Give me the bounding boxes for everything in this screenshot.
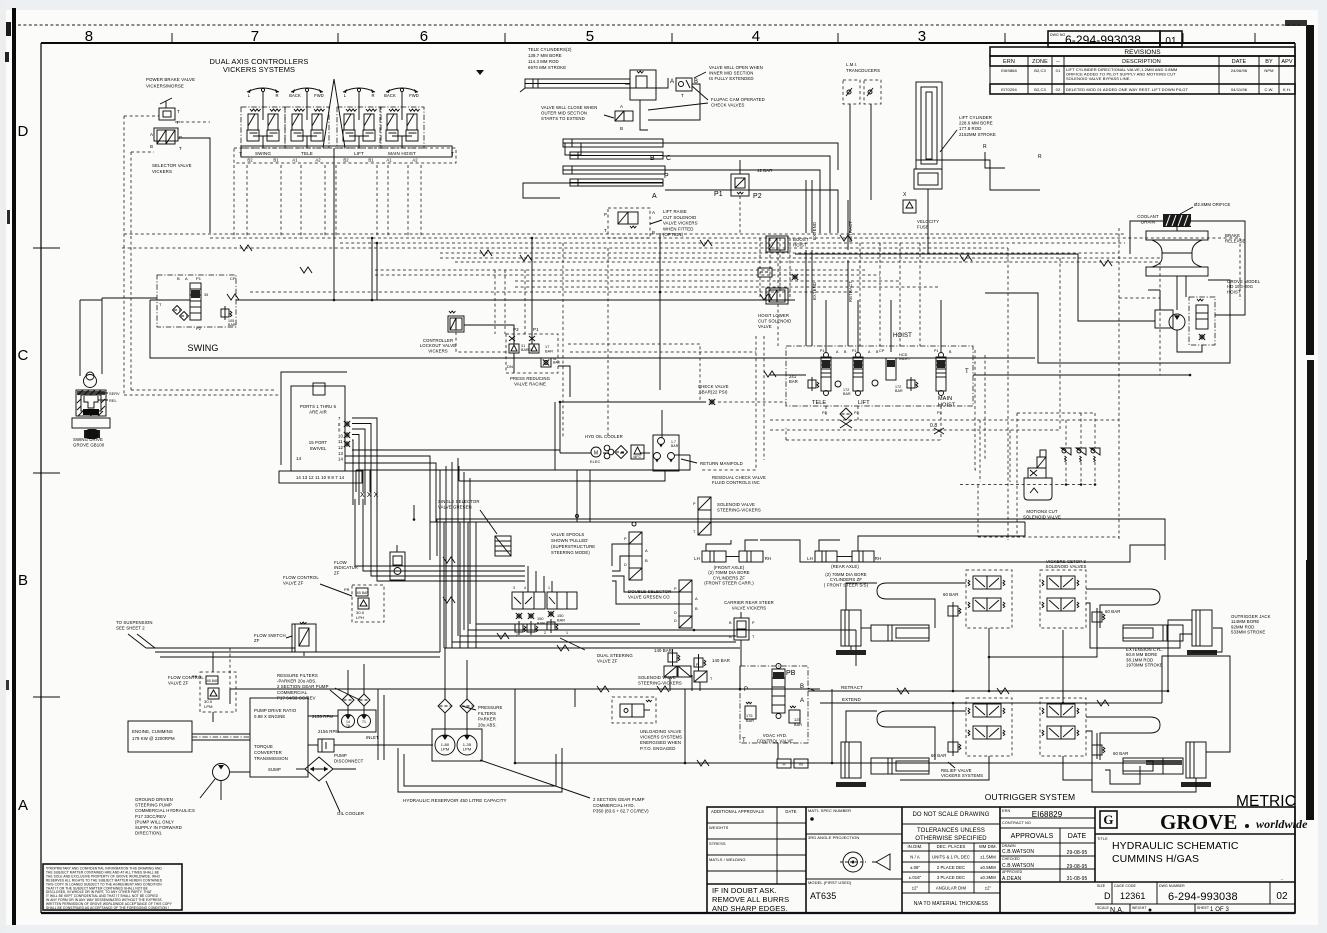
svg-text:.5BAR(22 PSI): .5BAR(22 PSI) (698, 389, 728, 394)
svg-text:SWING: SWING (255, 151, 271, 156)
svg-text:SOLENOID VALVE: SOLENOID VALVE (717, 502, 755, 507)
svg-text:B: B (177, 276, 180, 281)
svg-text:C.B.WATSON: C.B.WATSON (1002, 849, 1034, 855)
svg-text:150: 150 (557, 614, 564, 618)
svg-text:LH: LH (807, 556, 813, 561)
svg-text:P1: P1 (934, 349, 939, 353)
svg-text:MATLS / WELDING: MATLS / WELDING (709, 857, 746, 862)
svg-text:STRESS: STRESS (709, 841, 726, 846)
svg-text:PUMP DRIVE RATIO: PUMP DRIVE RATIO (254, 708, 297, 713)
svg-text:D: D (624, 563, 627, 567)
svg-text:DISCONNECT: DISCONNECT (334, 758, 364, 763)
svg-text:VALVE GRESEN CO: VALVE GRESEN CO (628, 595, 670, 600)
suspension feed lines (155, 651, 440, 653)
svg-text:P: P (752, 621, 755, 625)
svg-text:GROUND DRIVEN: GROUND DRIVEN (135, 797, 173, 802)
svg-text:3RD ANGLE PROJECTION: 3RD ANGLE PROJECTION (808, 835, 859, 840)
double selector valve 2 (679, 580, 692, 628)
svg-text:P1: P1 (196, 276, 202, 281)
svg-text:BAR: BAR (895, 389, 903, 393)
svg-text:AND SHARP EDGES.: AND SHARP EDGES. (712, 904, 788, 913)
svg-text:±0.3MM: ±0.3MM (980, 875, 996, 880)
svg-text:6970 MM STROKE: 6970 MM STROKE (528, 65, 566, 70)
svg-text:SUPPLY IN FORWARD: SUPPLY IN FORWARD (135, 825, 182, 830)
svg-text:VALVE ZF: VALVE ZF (597, 658, 618, 663)
svg-text:FLOW CONTROL: FLOW CONTROL (283, 575, 319, 580)
svg-text:04/11/96: 04/11/96 (1231, 87, 1248, 92)
lift cylinder (916, 82, 942, 169)
dual steering relief/checks (517, 614, 521, 618)
pilot line bus band (233, 165, 235, 236)
svg-text:14: 14 (296, 456, 302, 461)
svg-text:2 SECTION GEAR PUMP: 2 SECTION GEAR PUMP (593, 797, 645, 802)
svg-text:2156 RPM: 2156 RPM (318, 729, 339, 734)
dwg number box top (1048, 31, 1160, 47)
bank top risers (825, 300, 827, 352)
tele cylinder upper (525, 79, 630, 88)
revisions table (990, 47, 1295, 56)
title block (707, 807, 1295, 913)
dual axis controller TELE (291, 88, 323, 92)
svg-text:13: 13 (338, 451, 343, 456)
svg-text:APPROVALS: APPROVALS (1011, 833, 1054, 840)
svg-text:VALVE RACINE: VALVE RACINE (514, 381, 546, 386)
svg-text:DRAWN: DRAWN (1002, 844, 1016, 848)
svg-text:BAR: BAR (843, 392, 851, 396)
steering left risers (443, 522, 445, 648)
engine cummins (128, 721, 192, 752)
svg-text:PR: PR (344, 588, 350, 592)
svg-text:±.016": ±.016" (909, 875, 922, 880)
svg-text:COOLANT: COOLANT (1137, 214, 1159, 219)
main control valve bank (786, 346, 973, 406)
svg-text:35: 35 (204, 293, 208, 297)
svg-text:VALVE GRESEN: VALVE GRESEN (438, 504, 472, 509)
svg-text:±0.5MM: ±0.5MM (980, 865, 996, 870)
double selector valve 1 (629, 532, 642, 580)
svg-text:X0: X0 (799, 763, 803, 767)
svg-text:TELE CYLINDERS(2): TELE CYLINDERS(2) (528, 47, 572, 52)
svg-text:STEERING MODE): STEERING MODE) (551, 550, 590, 555)
svg-text:MM DIM.: MM DIM. (979, 844, 997, 849)
svg-text:DO NOT SCALE DRAWING: DO NOT SCALE DRAWING (912, 812, 989, 818)
svg-text:REMOVE ALL BURRS: REMOVE ALL BURRS (712, 895, 789, 904)
svg-text:INLET: INLET (366, 735, 379, 740)
svg-text:COMMERCIAL HYD.: COMMERCIAL HYD. (593, 803, 635, 808)
svg-text:LPH: LPH (356, 615, 364, 620)
svg-text:B1: B1 (273, 158, 279, 163)
svg-text:SIZE: SIZE (1097, 884, 1106, 888)
svg-text:ADDITIONAL APPROVALS: ADDITIONAL APPROVALS (711, 809, 764, 814)
svg-text:0.8: 0.8 (930, 423, 937, 429)
svg-text:STEERING PUMP: STEERING PUMP (135, 803, 172, 808)
svg-text:P: P (693, 502, 696, 506)
svg-text:BAR: BAR (789, 379, 798, 384)
svg-text:RESSURE FILTERS: RESSURE FILTERS (277, 673, 318, 678)
svg-text:DUAL STEERING: DUAL STEERING (597, 653, 633, 658)
swivel check valves (345, 422, 349, 426)
svg-text:11: 11 (338, 439, 343, 444)
xxx drops (355, 470, 357, 486)
svg-text:14: 14 (338, 457, 343, 462)
outrigger piping (846, 583, 877, 610)
svg-text:A: A (695, 596, 698, 601)
svg-text:SHEET: SHEET (1197, 906, 1210, 910)
svg-text:6: 6 (420, 28, 428, 45)
svg-text:A2: A2 (315, 158, 321, 163)
svg-text:TO SUSPENSION: TO SUSPENSION (116, 620, 153, 625)
svg-text:BAR: BAR (746, 719, 754, 723)
svg-text:2 SECTION GEAR PUMP: 2 SECTION GEAR PUMP (277, 684, 329, 689)
svg-text:RH: RH (875, 556, 881, 561)
svg-text:60 BAR: 60 BAR (1113, 751, 1128, 756)
proprietary note block (43, 864, 182, 910)
svg-text:R: R (983, 144, 987, 150)
mid horizontal dashed group y500 (979, 420, 981, 482)
svg-text:A: A (670, 79, 674, 85)
svg-text:HOIST: HOIST (893, 333, 912, 339)
misc squiggles (597, 686, 609, 692)
svg-text:EI70294: EI70294 (1001, 87, 1017, 92)
svg-text:(OPTION): (OPTION) (663, 232, 684, 237)
svg-text:±1.5MM: ±1.5MM (980, 855, 996, 860)
swing drive feed lines (79, 300, 81, 376)
svg-text:T: T (179, 146, 182, 151)
svg-text:B: B (645, 558, 648, 563)
svg-text:BY: BY (1265, 59, 1273, 65)
svg-text:SWING DRIVE: SWING DRIVE (73, 437, 103, 442)
motions cut solenoid valve (1016, 413, 1018, 537)
svg-text:SERV: SERV (109, 392, 120, 396)
svg-text:B2: B2 (247, 158, 253, 163)
svg-text:SOLENOID VALVE BYPASS LINE.: SOLENOID VALVE BYPASS LINE. (1066, 76, 1131, 81)
motions cut relief trio (1065, 420, 1067, 448)
svg-text:G: G (1103, 812, 1113, 827)
svg-text:1: 1 (548, 586, 550, 590)
svg-text:VALVE VICKERS: VALVE VICKERS (663, 221, 698, 226)
svg-text:42 BAR: 42 BAR (757, 168, 772, 173)
svg-text:PUMP: PUMP (334, 753, 347, 758)
svg-text:MODEL (FIRST USED): MODEL (FIRST USED) (808, 880, 852, 885)
svg-text:FLUPAC CAM OPERATED: FLUPAC CAM OPERATED (711, 97, 765, 102)
svg-text:RETRACT: RETRACT (841, 685, 863, 690)
pilot valve 42 bar (731, 174, 749, 196)
svg-text:6-294-993038: 6-294-993038 (1168, 891, 1238, 903)
svg-text:BAR: BAR (553, 361, 560, 365)
svg-text:WEIGHT: WEIGHT (1132, 906, 1147, 910)
steering supply lines (430, 522, 1025, 560)
svg-text:±2°: ±2° (985, 886, 992, 891)
svg-text:24/06/96: 24/06/96 (1231, 68, 1248, 73)
svg-text:(SUPERSTRUCTURE: (SUPERSTRUCTURE (551, 544, 595, 549)
svg-text:POWER BRAKE VALVE: POWER BRAKE VALVE (146, 77, 195, 82)
svg-text:D: D (674, 611, 677, 615)
svg-text:LPM: LPM (463, 747, 472, 752)
svg-text:FUSE: FUSE (917, 225, 929, 230)
pto pump pair (338, 710, 376, 732)
svg-text:T: T (239, 152, 242, 158)
swivel outlet lines (352, 418, 377, 505)
svg-text:APV: APV (1281, 59, 1293, 65)
svg-text:A: A (652, 210, 655, 215)
svg-text:A1: A1 (292, 158, 298, 163)
svg-text:1 OF 3: 1 OF 3 (1210, 907, 1230, 913)
svg-text:VOAC HYD.: VOAC HYD. (763, 733, 788, 738)
bus vertical drops (371, 238, 373, 300)
svg-text:3: 3 (513, 586, 515, 590)
svg-text:COMMERCIAL: COMMERCIAL (277, 690, 308, 695)
svg-text:WEIGHTS: WEIGHTS (709, 825, 729, 830)
svg-text:N / A: N / A (910, 855, 920, 860)
svg-text:P2: P2 (513, 327, 519, 332)
svg-text:BAR: BAR (671, 444, 679, 448)
svg-text:OIL COOLER: OIL COOLER (337, 811, 364, 816)
svg-text:CHECK VALVES: CHECK VALVES (711, 103, 745, 108)
svg-text:LIFT RAISE: LIFT RAISE (663, 209, 687, 214)
svg-text:(PUMP WILL ONLY: (PUMP WILL ONLY (135, 819, 174, 824)
svg-text:SWING: SWING (188, 343, 219, 353)
svg-text:BAR: BAR (228, 323, 236, 327)
check restrictor (758, 268, 772, 277)
svg-text:UNITS & 1 PL DEC: UNITS & 1 PL DEC (932, 855, 970, 860)
svg-text:-0-: -0- (782, 763, 787, 767)
svg-text:A1: A1 (386, 158, 392, 163)
svg-text:B2,C3: B2,C3 (1034, 87, 1046, 92)
svg-text:P350 (83.6 + 62.7 CC/REV): P350 (83.6 + 62.7 CC/REV) (593, 809, 649, 814)
svg-text:A: A (620, 104, 623, 109)
svg-text:ZF: ZF (254, 638, 260, 643)
valve bank pilot dashed enclosures (700, 336, 756, 470)
svg-text:LH: LH (694, 556, 700, 561)
svg-text:SELECTOR VALVE: SELECTOR VALVE (152, 163, 192, 168)
steer cylinder feeds (706, 540, 731, 551)
tele cylinders lower (563, 139, 663, 147)
svg-text:5: 5 (586, 28, 594, 45)
svg-text:CUT SOLENOID: CUT SOLENOID (758, 319, 791, 324)
outrigger solenoid cluster front-right (1040, 570, 1086, 628)
svg-text:R: R (371, 93, 374, 98)
svg-text:140 BAR: 140 BAR (654, 648, 672, 653)
svg-text:A: A (150, 132, 153, 137)
svg-text:EXTEND: EXTEND (812, 282, 817, 300)
svg-text:DATE: DATE (1232, 59, 1247, 65)
svg-text:4: 4 (752, 28, 760, 45)
swing drive grove gb100 (84, 375, 97, 388)
svg-text:29-08-95: 29-08-95 (1067, 850, 1088, 856)
svg-text:RETURN MANIFOLD: RETURN MANIFOLD (700, 461, 743, 466)
svg-text:R: R (1038, 154, 1042, 160)
svg-text:MAIN HOIST: MAIN HOIST (388, 151, 416, 156)
svg-text:B: B (729, 621, 732, 625)
svg-text:DATE: DATE (785, 809, 796, 814)
svg-text:REVISIONS: REVISIONS (1124, 49, 1161, 56)
svg-text:ERN: ERN (1003, 59, 1015, 65)
solenoid valve steering vickers upper (698, 497, 711, 535)
svg-text:T: T (681, 93, 684, 98)
svg-text:B: B (620, 126, 623, 131)
svg-text:B1: B1 (368, 158, 374, 163)
svg-text:VALVE ZF: VALVE ZF (168, 680, 189, 685)
velocity fuse (903, 200, 916, 213)
svg-text:3 PLACE DEC: 3 PLACE DEC (937, 875, 965, 880)
svg-text:C.B.WATSON: C.B.WATSON (1002, 863, 1034, 869)
svg-text:WHEN FITTED: WHEN FITTED (663, 226, 693, 231)
lines lockout-swing (456, 332, 506, 352)
extension cyl front-right (1123, 625, 1183, 641)
svg-text:TELE: TELE (812, 400, 826, 406)
svg-text:2: 2 (544, 631, 546, 635)
svg-text:VALVE WILL CLOSE WHEN: VALVE WILL CLOSE WHEN (541, 105, 597, 110)
svg-text:OUTER MID SECTION: OUTER MID SECTION (541, 111, 587, 116)
svg-text:PORTS 1 THRU 6: PORTS 1 THRU 6 (300, 404, 337, 409)
svg-text:EI68829: EI68829 (1032, 810, 1063, 819)
svg-text:M: M (594, 451, 598, 457)
svg-text:COMMERCIAL HYDRAULICS: COMMERCIAL HYDRAULICS (135, 808, 195, 813)
svg-text:CP: CP (230, 276, 236, 281)
svg-text:P1: P1 (714, 191, 723, 198)
dual axis controller LIFT (343, 88, 375, 92)
third angle projection symbol (843, 852, 863, 872)
svg-text:worldwide: worldwide (1256, 817, 1308, 831)
svg-text:APPROVED: APPROVED (1002, 870, 1023, 874)
svg-text:FILTERS: FILTERS (478, 711, 496, 716)
svg-text:7: 7 (251, 28, 259, 45)
outrigger loop curves (877, 583, 966, 628)
supply/return trunks (230, 688, 820, 690)
dual axis controller MAIN HOIST (386, 88, 418, 92)
svg-text:125: 125 (794, 718, 801, 722)
svg-text:PR: PR (192, 675, 198, 679)
pump drive / torque converter box (250, 698, 308, 777)
return manifold risers (661, 410, 663, 437)
svg-text:A: A (800, 698, 804, 704)
svg-text:GROVE: GROVE (1160, 810, 1238, 834)
svg-text:SCALE: SCALE (1097, 906, 1110, 910)
svg-text:BAR: BAR (545, 350, 553, 354)
controller lockout valve vickers (448, 316, 464, 332)
svg-text:CONTROL VALVE: CONTROL VALVE (757, 738, 794, 743)
svg-text:P1: P1 (852, 349, 857, 353)
svg-text:C: C (18, 347, 29, 364)
svg-text:SOLENOID VALVES: SOLENOID VALVES (1046, 564, 1087, 569)
svg-text:LIFT: LIFT (354, 151, 364, 156)
svg-text:GROVE GB100: GROVE GB100 (73, 442, 105, 447)
svg-text:VALVE ZF: VALVE ZF (283, 580, 304, 585)
svg-text:FLOW CONTROL: FLOW CONTROL (168, 675, 204, 680)
svg-text:B2,C3: B2,C3 (1034, 68, 1046, 73)
svg-text:CAGE CODE: CAGE CODE (1114, 884, 1136, 888)
svg-text:71: 71 (362, 720, 366, 724)
svg-text:ENERGISED WHEN: ENERGISED WHEN (640, 740, 681, 745)
svg-text:VALVE SPOOLS: VALVE SPOOLS (551, 532, 584, 537)
svg-text:TRANSMISSION: TRANSMISSION (254, 756, 288, 761)
svg-text:BAR: BAR (794, 723, 802, 727)
svg-text:HYDRAULIC SCHEMATIC: HYDRAULIC SCHEMATIC (1112, 840, 1239, 852)
svg-text:B: B (695, 606, 698, 611)
swing piping long runs (150, 300, 1035, 358)
rear axle steer cylinders (815, 551, 837, 562)
svg-text:ANGULAR DIM: ANGULAR DIM (936, 886, 967, 891)
svg-text:A2: A2 (412, 158, 418, 163)
svg-text:139.7 MM BORE: 139.7 MM BORE (528, 53, 562, 58)
svg-text:15 PORT: 15 PORT (309, 440, 328, 445)
svg-text:FLUID CONTROLS INC: FLUID CONTROLS INC (712, 480, 760, 485)
svg-text:P1: P1 (533, 327, 539, 332)
coolant drain orifice block (1163, 214, 1191, 227)
drawing border frame (41, 42, 1295, 44)
svg-text:INNER MID SECTION: INNER MID SECTION (709, 71, 753, 76)
svg-text:ZF: ZF (334, 570, 340, 575)
svg-text:C.W.: C.W. (1264, 87, 1273, 92)
svg-text:CONTRACT NO: CONTRACT NO (1002, 821, 1031, 825)
hoist drum (1146, 231, 1208, 240)
svg-text:4: 4 (524, 586, 526, 590)
svg-text:N/A TO MATERIAL THICKNESS: N/A TO MATERIAL THICKNESS (914, 901, 989, 907)
svg-text:175: 175 (746, 714, 753, 718)
svg-text:P: P (744, 687, 748, 693)
svg-text:RELEASE: RELEASE (1225, 239, 1246, 244)
svg-text:P17 64/33 CC/REV: P17 64/33 CC/REV (277, 695, 316, 700)
return manifold (653, 435, 679, 471)
svg-text:MAIN: MAIN (938, 396, 952, 402)
svg-text:ARE AIR: ARE AIR (309, 410, 327, 415)
svg-text:K.H.: K.H. (1283, 87, 1291, 92)
svg-text:DIRECTION).: DIRECTION). (135, 831, 162, 836)
spool valve x858 (853, 357, 863, 391)
long pilot drops left of bank (659, 233, 661, 292)
svg-text:METRIC: METRIC (1236, 793, 1296, 810)
svg-text:165 BAR: 165 BAR (355, 591, 369, 595)
svg-text:PRESS REDUCING: PRESS REDUCING (510, 376, 551, 381)
svg-text:ZONE: ZONE (1032, 59, 1048, 65)
svg-text:EI69868: EI69868 (1001, 68, 1017, 73)
hoist brake valve (1189, 297, 1215, 345)
svg-text:14 13 12 11 10 9 8 7 14: 14 13 12 11 10 9 8 7 14 (296, 475, 345, 480)
svg-text:114.3 MM ROD: 114.3 MM ROD (528, 59, 559, 64)
svg-text:VICKERS SYSTEMS: VICKERS SYSTEMS (640, 735, 682, 740)
svg-text:LPM: LPM (441, 747, 450, 752)
svg-text:R: R (275, 93, 278, 98)
svg-text:VICKERS SYSTEMS: VICKERS SYSTEMS (223, 65, 295, 74)
engine drive shaft (192, 733, 250, 735)
svg-text:3: 3 (918, 28, 926, 45)
svg-text:(REAR AXLE): (REAR AXLE) (831, 564, 859, 569)
svg-text:12361: 12361 (1120, 891, 1146, 901)
tele piping (663, 143, 838, 170)
svg-text:BACK: BACK (384, 93, 396, 98)
svg-text:B2: B2 (343, 158, 349, 163)
svg-text:DWG NUMBER: DWG NUMBER (1159, 884, 1185, 888)
hcd inlet valve (886, 358, 896, 380)
svg-text:NPM: NPM (1264, 68, 1273, 73)
svg-text:BAR: BAR (557, 619, 565, 623)
svg-text:HYD OIL COOLER: HYD OIL COOLER (585, 434, 623, 439)
svg-text:--: -- (1056, 59, 1060, 65)
coupling box (318, 739, 334, 752)
svg-text:TOLERANCES UNLESS: TOLERANCES UNLESS (917, 828, 985, 834)
svg-text:B: B (150, 144, 153, 149)
svg-text:177.8 ROD: 177.8 ROD (959, 126, 981, 131)
dual steering valve zf (512, 592, 545, 609)
extension cyl rear-left (871, 758, 929, 774)
svg-text:-PARKER 20u ABS.: -PARKER 20u ABS. (277, 679, 317, 684)
squiggles steering (443, 557, 455, 563)
svg-text:P: P (664, 173, 669, 180)
svg-text:HOIST: HOIST (1227, 289, 1241, 294)
svg-text:BAR-1: BAR-1 (521, 348, 532, 352)
svg-text:P: P (624, 537, 627, 541)
outrigger jack rear-left (841, 742, 861, 778)
